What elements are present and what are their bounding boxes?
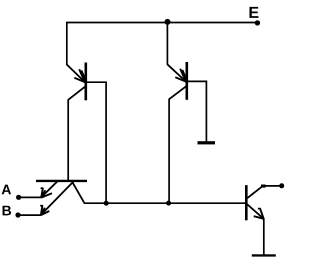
ground symbol (Q3 emitter) [252, 254, 276, 256]
transistor Q1 (PNP, emitter top) [67, 63, 86, 101]
junction: node rail with Q2 collector wire [166, 201, 171, 206]
terminal dot E [255, 20, 260, 25]
wire: Q2 base lead right then down to ground [188, 81, 207, 141]
label B [3, 206, 12, 216]
label E [249, 7, 258, 18]
wire: input B to Q0 second emitter [18, 214, 41, 216]
label A [2, 185, 11, 195]
wire: Q2 emitter from junction down [166, 22, 168, 65]
transistor Q3 (NPN output) [246, 185, 263, 220]
wire: Q2 collector down to node N2 [168, 99, 170, 204]
wire: E supply rail (top horizontal) [67, 22, 258, 24]
wire: Q1 collector down to Q0 base [67, 99, 69, 181]
wire: input A to Q0 first emitter [19, 196, 42, 198]
terminal dot (Q3 collector output) [279, 183, 284, 188]
transistor Q2 (PNP, emitter top) [167, 62, 187, 100]
wire: node rail from Q0 collector to Q3 base [84, 202, 246, 204]
junction: node rail with Q1 base wire [104, 201, 109, 206]
wire: E rail down to Q1 emitter [66, 22, 68, 65]
wire: Q3 emitter down to ground [263, 218, 265, 254]
ground symbol (Q2 base) [198, 141, 216, 144]
terminal dot A [16, 195, 21, 200]
wire: Q1 base lead right then down to node N1 [87, 82, 107, 203]
wire: Q3 collector to output terminal [262, 185, 282, 187]
terminal dot B [15, 212, 20, 217]
transistor Q0 (NPN multi-emitter input) [36, 181, 87, 215]
junction: E rail to Q2 emitter [165, 19, 171, 25]
